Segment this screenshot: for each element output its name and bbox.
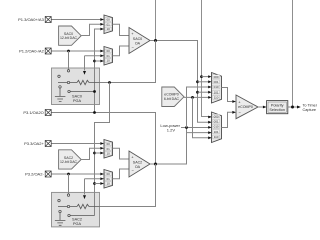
wire SAC2 PGA lower tap	[70, 215, 94, 217]
svg-text:SAC2: SAC2	[64, 156, 73, 160]
wire P3.2 branch down into SAC2 PGA	[68, 174, 70, 194]
pga SAC2 PGA block	[52, 192, 100, 227]
wire eCOMP DAC output to upper mux input 110	[184, 96, 210, 98]
wire P1.3 pin to SAC0 positive mux input 00	[52, 19, 101, 21]
ground SAC2 PGA	[55, 213, 66, 225]
pin P3.3/OA2+	[24, 141, 51, 147]
wire SAC2 PGA input rail	[58, 206, 77, 208]
svg-text:10: 10	[107, 182, 111, 186]
junction OA0 feedback branch to SAC2 cross-connect	[108, 81, 111, 84]
junction P3.2 branch to SAC2 PGA input	[67, 173, 70, 176]
svg-text:10: 10	[107, 152, 111, 156]
svg-text:110: 110	[214, 135, 219, 139]
svg-text:OA: OA	[135, 165, 141, 169]
svg-text:SAC0: SAC0	[64, 32, 73, 36]
svg-text:00: 00	[107, 142, 111, 146]
terminal SAC2 PGA input contact	[67, 194, 69, 196]
svg-text:Polarity: Polarity	[271, 104, 284, 108]
svg-text:SAC2: SAC2	[72, 218, 82, 222]
wire OA0 output to eCOMP mux feed column	[150, 41, 212, 123]
wire SAC2 negative mux output to OA2 - input	[113, 169, 130, 179]
svg-text:eCOMP0: eCOMP0	[164, 93, 178, 97]
svg-text:P1.3/OA0+/A3: P1.3/OA0+/A3	[18, 17, 44, 22]
mux SAC0 negative input select	[100, 47, 112, 66]
ground SAC0 PGA	[55, 88, 66, 101]
pin P3.2/OA2-	[25, 171, 51, 177]
svg-text:12-bit DAC: 12-bit DAC	[60, 36, 78, 40]
wire OA2 output feedback into SAC2 PGA	[100, 164, 156, 207]
switch contact SAC0 PGA upper left	[58, 75, 60, 77]
wire SAC0 PGA input rail	[58, 82, 77, 84]
switch contact SAC2 PGA upper left	[58, 199, 60, 201]
svg-text:101: 101	[214, 90, 219, 94]
switch contact SAC2 PGA on rail	[67, 205, 69, 207]
svg-text:010: 010	[214, 85, 219, 89]
junction OA2 net with PGA lower tap	[93, 90, 96, 93]
svg-text:6-bit DAC: 6-bit DAC	[164, 97, 180, 101]
terminal SAC0 PGA input contact	[67, 70, 69, 72]
svg-text:eCOMP0: eCOMP0	[238, 105, 253, 109]
junction eCOMP DAC branch down	[191, 96, 194, 99]
wire SAC0 DAC output to positive mux input 01	[81, 24, 100, 35]
svg-text:110: 110	[214, 96, 219, 100]
switch contact SAC0 PGA lower tap	[68, 90, 70, 92]
junction OA0 output to eCOMP upper mux input 001	[196, 80, 199, 83]
mux SAC0 positive input select	[100, 15, 112, 34]
wire OA0 output feedback into SAC0 PGA	[100, 41, 156, 83]
wire stub OA0 net to SAC2 negative mux input 10	[95, 183, 101, 185]
junction OA2 net to SAC0 negative mux input 10	[93, 60, 96, 63]
resistor SAC2 PGA feedback resistor	[77, 204, 100, 208]
svg-text:00: 00	[107, 18, 111, 22]
junction OA2 net riser on P3.1 wire	[93, 111, 96, 114]
node To Timer Capture	[303, 104, 318, 113]
op-amp U4 SAC2 OA	[129, 151, 150, 177]
wire OA2 output net riser to SAC0 positive mux input 10	[95, 29, 101, 113]
wire SAC2 DAC output to positive mux input 01	[81, 148, 100, 159]
wire OA0 net down to SAC2 mux inputs 10	[95, 83, 110, 216]
wire stub to upper mux input 001	[198, 81, 210, 83]
svg-text:P3.1/OA2O: P3.1/OA2O	[23, 110, 43, 115]
wire SAC0 PGA tap to negative mux input 01	[85, 56, 101, 71]
junction P1.2 branch to PGA input	[67, 50, 70, 53]
node Low-power 1.2V reference	[160, 123, 180, 133]
switch contact SAC2 PGA ground branch	[59, 210, 61, 212]
wire eCOMP negative mux output to eCOMP - input	[222, 112, 233, 127]
wire 1.2V reference to lower mux input 010	[181, 127, 212, 129]
junction OA0 net to SAC2 positive mux input 10	[93, 152, 96, 155]
junction top line to eCOMP upper mux input 000	[200, 75, 203, 78]
wire stub OA2 net to SAC0 negative mux input 10	[95, 60, 101, 62]
wire P3.1 pin to OA2 output node	[52, 113, 156, 165]
wire P1.2 branch down into SAC0 PGA	[68, 51, 70, 70]
junction OA2 output node	[154, 163, 157, 166]
resistor SAC0 PGA feedback resistor	[77, 80, 100, 84]
wire eCOMP output to polarity selection	[258, 106, 263, 108]
switch contact SAC0 PGA ground branch	[59, 86, 61, 88]
wire eCOMP positive mux output to eCOMP + input	[222, 88, 233, 102]
wire eCOMP DAC branch to lower mux input 110	[193, 97, 212, 137]
wire SAC0 PGA lower tap	[70, 91, 94, 93]
arrow into eCOMP - input	[232, 111, 236, 114]
wire SAC0 positive mux output to OA0 + input	[113, 24, 130, 35]
wire OA2 output to eCOMP lower mux input 101	[150, 128, 212, 165]
wire stub OA0 net to SAC2 positive mux input 10	[95, 152, 101, 154]
svg-text:01: 01	[107, 177, 111, 181]
junction OA0 net to SAC2 negative mux input 10	[93, 182, 96, 185]
junction eCOMP output with top vertical	[291, 106, 294, 109]
comparator U6 eCOMP0	[236, 95, 258, 119]
op-amp U2 SAC0 OA	[129, 28, 150, 54]
wire stub to upper mux input 000	[202, 76, 210, 78]
wire SAC2 PGA tap to negative mux input 01	[85, 179, 101, 195]
pin P1.3/OA0+/A3	[18, 17, 51, 23]
wire P3.3 pin to SAC2 positive mux input 00	[52, 143, 101, 145]
wiper arrow SAC2 PGA tap	[83, 195, 86, 199]
svg-text:P1.2/OA0-/A2: P1.2/OA0-/A2	[19, 49, 44, 54]
dac U1 SAC0 12-bit DAC	[59, 26, 82, 45]
wire vertical from top edge to eCOMP output node	[292, 0, 294, 107]
svg-text:SAC0: SAC0	[133, 37, 142, 41]
mux SAC2 negative input select	[100, 170, 112, 189]
wire SAC2 positive mux output to OA2 + input	[113, 148, 130, 159]
mux eCOMP0 negative input select	[208, 112, 221, 143]
pin P1.2/OA0-/A2	[19, 48, 51, 54]
svg-text:To Timer: To Timer	[303, 104, 318, 108]
svg-text:010: 010	[214, 125, 219, 129]
pin P3.1/OA2O	[23, 110, 51, 116]
dac U5 eCOMP0 6-bit DAC	[162, 87, 184, 107]
svg-text:10: 10	[107, 27, 111, 31]
svg-text:OA: OA	[135, 41, 141, 45]
wire vertical from top edge to eCOMP plus mux input 000	[202, 0, 212, 117]
wiper arrow SAC0 PGA tap	[83, 71, 86, 75]
switch contact SAC2 PGA lower tap	[68, 214, 70, 216]
junction OA0 output to eCOMP upper mux input 101	[196, 91, 199, 94]
svg-text:Capture: Capture	[303, 108, 317, 112]
svg-text:001: 001	[214, 120, 219, 124]
svg-text:01: 01	[107, 54, 111, 58]
svg-text:000: 000	[214, 114, 219, 118]
switch contact SAC0 PGA on rail	[67, 81, 69, 83]
wire P3.2 pin to SAC2 negative mux input 00	[52, 173, 101, 175]
wire polarity selection to timer capture	[288, 106, 297, 108]
svg-text:PGA: PGA	[73, 99, 81, 103]
junction OA0 output with top vertical	[154, 39, 157, 42]
svg-text:00: 00	[107, 172, 111, 176]
svg-text:PGA: PGA	[73, 222, 81, 226]
svg-text:12-bit DAC: 12-bit DAC	[60, 160, 78, 164]
wire vertical from top edge carrying OA0 output to off-figure pin	[155, 0, 157, 83]
junction 1.2V branch up	[185, 126, 188, 129]
mux SAC2 positive input select	[100, 140, 112, 159]
mux eCOMP0 positive input select	[208, 73, 221, 104]
wire stub to upper mux input 101	[198, 91, 210, 93]
svg-text:001: 001	[214, 80, 219, 84]
wire P1.2 pin to SAC0 negative mux input 00	[52, 50, 101, 52]
dac U3 SAC2 12-bit DAC	[59, 150, 82, 169]
svg-text:000: 000	[214, 75, 219, 79]
svg-text:10: 10	[107, 59, 111, 63]
svg-text:01: 01	[107, 147, 111, 151]
svg-text:P3.3/OA2+: P3.3/OA2+	[24, 141, 44, 146]
svg-text:SAC0: SAC0	[72, 95, 82, 99]
wire SAC0 negative mux output to OA0 - input	[113, 46, 130, 56]
arrow into eCOMP + input	[232, 100, 236, 103]
svg-text:P3.2/OA2-: P3.2/OA2-	[25, 172, 44, 177]
arrow into polarity selection	[263, 106, 267, 109]
svg-text:01: 01	[107, 22, 111, 26]
svg-text:SAC2: SAC2	[133, 161, 142, 165]
svg-text:1.2V: 1.2V	[167, 128, 176, 133]
wire 1.2V branch to upper mux input 010	[187, 87, 210, 128]
arrow to timer capture	[297, 106, 301, 109]
svg-text:Selection: Selection	[269, 108, 285, 112]
svg-text:101: 101	[214, 130, 219, 134]
block Polarity Selection	[267, 101, 288, 114]
pga SAC0 PGA block	[52, 68, 100, 105]
svg-text:00: 00	[107, 49, 111, 53]
